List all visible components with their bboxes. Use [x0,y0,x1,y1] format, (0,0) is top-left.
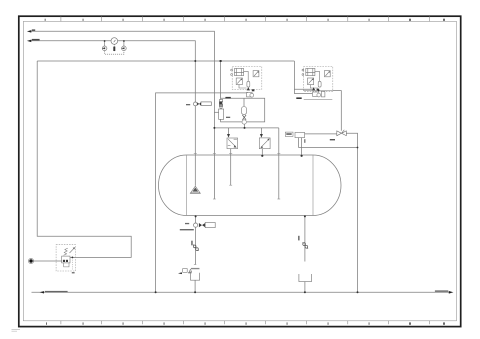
compressor G1 motor block [113,47,115,51]
label Reservoir B-10 [180,229,194,230]
wire drain left funnel outlet [194,280,196,292]
wire subsystem1 drain line to left [156,93,247,292]
dip tube end tick x279 [277,198,280,200]
arrow Pneum line start [27,40,31,43]
arrow into square valve 2 [260,134,263,138]
port dot relief inlet [29,259,32,262]
crossover X below capsule [242,115,246,120]
wire subsystem1 lower bypass line [221,98,265,122]
valve block V2 in subsystem 2 [302,68,320,81]
wire subsystem1 supply drop [220,61,222,100]
suction strainer in tank [191,186,200,193]
arrow into square valve 1 [227,134,230,138]
check valve right of G1 [121,47,124,49]
flow control square A subsystem 2 [308,78,318,88]
silencer capsule below subsystem1 [242,107,247,115]
filter capsule subsystem 2 [318,81,321,87]
flow control square B subsystem 1 [253,71,259,77]
reservoir tank B-10 [159,155,341,216]
check valve left of G1 [102,47,105,49]
node tank top x262 [261,155,263,157]
drain valve cluster below subsystem 1 [247,93,254,98]
funnel right [299,274,312,282]
label PI vertical [304,139,305,143]
wire tank bottom drain left [195,217,197,223]
cooler tag box RO [285,132,293,136]
node return line left drain [194,291,196,293]
node return line right drain [304,291,306,293]
flow control square B subsystem 2 [324,71,330,77]
wire drain right funnel outlet [304,282,306,293]
sample point triangle [189,269,191,272]
wire gauge stack to HP line link [214,111,218,113]
relief valve adjust arrow [70,248,75,254]
wire drop to square valve 2 [260,128,262,135]
label p1 [72,272,75,273]
label HA09 [330,139,335,140]
wire drain left below ball valve [195,227,197,264]
label KK2 vertical [298,236,299,241]
compressor group G1 [102,38,126,55]
wire return line bottom [32,291,450,293]
node G1 left junction [104,40,106,42]
plot stamp bottom-left margin [12,328,21,331]
wire HP supply line [31,31,214,199]
check pair subsystem 2 bottom [312,87,315,90]
node cooler line junction [357,147,359,149]
dip tube end tick x214 [213,198,216,200]
relief valve pilot dashes [71,257,73,269]
arrow return line right [449,291,454,294]
wire cooler line y147 [299,147,358,149]
filter capsule subsystem 1 [247,81,250,87]
wire square valve2 outlet to tank top [261,149,263,156]
square valve 2 (diag BL-TR) [259,138,270,149]
wire tank bottom drain right [304,217,306,262]
label HV2 [186,104,190,105]
node return line riser [357,291,359,293]
coupling KK2 [302,243,308,249]
node relief outlet junction [72,257,74,259]
wire subsystem2 bottom manifold [304,90,333,92]
node subsystem1 bottom junction [246,92,248,94]
cooler component [295,132,305,137]
hand valve HA09 [337,131,347,136]
wire cooler drop to tank [301,148,303,156]
wire left loop to relief valve [37,61,131,257]
node G1 right junction [123,40,125,42]
tank head tangent left [186,155,188,216]
label AF5 [226,117,230,118]
wire hand valve to right riser [346,133,357,292]
arrow sample left [178,272,182,274]
wire gauge stack bottom link [221,119,242,122]
label HV1 [185,223,189,224]
coupling KK1 [193,245,199,251]
drawing frame inner border [23,21,456,320]
label WA05 [296,97,301,99]
label WA04 [225,97,230,99]
node manifold left junction [213,127,215,129]
wire Pneum supply line [31,41,195,102]
wire subsystem2 supply drop [293,61,295,94]
gauge stack on subsystem1 drop [219,100,224,120]
wire square valve1 outlet dip tube [230,149,232,186]
drain circle below capsule [242,120,246,124]
relief valve body [62,256,70,263]
valve block V1 in subsystem 1 [231,68,248,81]
sample note line [191,268,200,270]
label Pneum [32,39,40,41]
dip tube end tick x231 [229,184,232,186]
tank head tangent right [312,155,314,216]
wire manifold line y128 [214,127,278,129]
label HP Pentland right [435,290,448,291]
frame column ticks top [61,16,429,21]
wire subsystem2 lower line [304,98,333,100]
label HP [32,29,35,31]
tank nozzle ticks [194,153,280,155]
funnel left [191,273,200,281]
frame column ticks bottom [61,321,429,324]
node subsystem2 bottom junction [318,90,320,92]
relief valve spring [64,248,68,255]
valve HV2 on Pneum drop [193,102,211,106]
subsystem 1 dashed enclosure WA04 [232,67,262,90]
wire drain circle bottom stub [244,124,246,128]
wire distribution header y61 [37,60,294,62]
node manifold circle junction [244,127,246,129]
wire subsystem2 entry 1 [294,88,312,90]
wire cooler U tube right leg [301,138,303,148]
node header-Pneum junction [194,60,196,62]
wire dip tube right of manifold [278,128,280,199]
arrow HP line start [27,30,31,32]
node tank top x301 [301,155,303,157]
node tank bottom right [304,215,306,217]
drain valve cluster below subsystem 2 [313,92,325,97]
relief valve drain U [64,263,69,267]
ball valve HV1 below tank [194,223,198,227]
node return line subsystem drain [155,291,157,293]
relief valve dashed enclosure [56,245,75,271]
label HP Pentland left [45,291,68,292]
wire relief valve inlet port line [31,260,62,262]
drain left end tick [194,264,196,266]
node tank bottom left [195,215,197,217]
frame column numbers top [45,19,445,21]
wire drop to square valve 1 [228,128,230,135]
subsystem 2 dashed enclosure WA05 [304,67,333,92]
square valve 1 (diag TL-BR) [227,138,238,149]
wire subsystem2 entry 2 [294,93,312,95]
check pair subsystem 1 bottom [247,87,250,90]
wire cooler outlet to hand valve [305,133,337,135]
sample point square [183,269,188,273]
wire filter chain top stub [243,98,245,106]
arrow return line left [40,291,44,293]
wire subsystem2 outlet [333,91,342,131]
frame column numbers bottom [46,322,445,324]
wire cooler U tube left leg [298,138,300,148]
relief valve poppets [63,260,65,262]
label KK1 vertical [191,241,192,246]
node header-subsystem1 junction [220,60,222,62]
flow control square A subsystem 1 [236,78,246,88]
wire relief valve outlet [70,256,76,258]
wire Pneum drop below valve into tank [194,106,196,186]
